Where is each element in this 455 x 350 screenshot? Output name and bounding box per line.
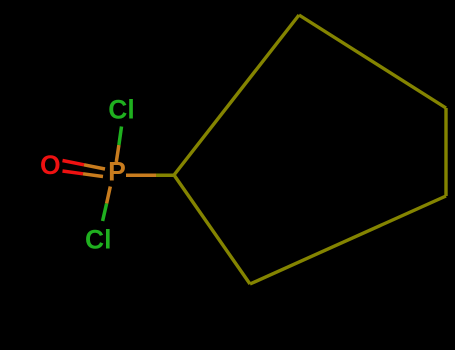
bond P-Cl top green half <box>119 127 122 146</box>
svg-text:O: O <box>40 150 61 180</box>
double bond O=P upper line orange half <box>84 165 105 169</box>
double bond O=P upper line red half <box>63 161 85 165</box>
bond P-Cl bottom green half <box>103 204 107 222</box>
double bond O=P lower line orange half <box>83 174 103 177</box>
ring bond B-L <box>174 175 250 284</box>
svg-text:Cl: Cl <box>108 95 135 125</box>
svg-text:Cl: Cl <box>85 224 112 254</box>
bond P-Cl top orange half <box>116 145 119 162</box>
ring bond RT-RB <box>444 108 447 196</box>
double bond O=P lower line red half <box>63 171 84 174</box>
ring bond L-A <box>174 15 299 175</box>
bond P-Cl bottom orange half <box>107 187 111 204</box>
bond P-C olive half <box>156 174 175 178</box>
ring bond A-RT <box>299 15 446 108</box>
ring bond RB-B <box>250 196 446 284</box>
bond P-C orange half <box>126 174 156 178</box>
svg-text:P: P <box>108 157 126 187</box>
